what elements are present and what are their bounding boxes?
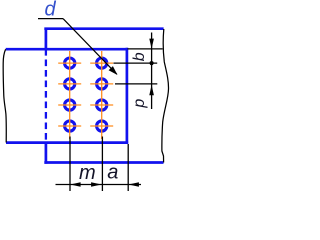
ext line plate A right edge below [127,144,129,191]
ext line plate A top edge (b upper) [128,48,163,50]
plate B left edge solid lower [45,143,48,164]
centerline col2 vertical [101,51,103,139]
leader underline for d [38,18,63,20]
plate B left edge hidden dashed [45,49,47,143]
dimension line b/p vertical [151,33,153,110]
ext line row2 [115,83,157,85]
centerline row2 col1 [58,83,81,85]
plate B right break line [162,29,169,163]
ext line row1 [114,62,158,64]
svg-text:d: d [45,0,57,21]
arrow left at col1 [70,182,80,187]
centerline row2 col2 [90,83,113,85]
ext line col1 below [69,137,71,192]
hole row3 col2 [97,100,107,110]
leader arrowhead [109,66,118,75]
plate A bottom edge [6,141,128,144]
dimension line m/a horizontal [56,184,142,186]
arrow left at plate edge ext [129,182,139,187]
centerline row3 col2 [90,104,113,106]
plate B top edge [44,27,163,30]
centerline row1 col1 [58,62,81,64]
plate A right edge [126,48,129,144]
arrow down to b upper ext [149,39,154,49]
hole row1 col2 [97,58,107,68]
svg-text:p: p [131,99,148,109]
junction dot at row1 ext [150,61,154,65]
hole row4 col2 [97,121,107,131]
hole row2 col2 [97,79,107,89]
centerline col1 vertical [69,51,71,139]
leader line for d [63,19,117,75]
arrow right at col2 [91,182,101,187]
plate A top edge [6,48,128,51]
svg-text:a: a [107,161,118,183]
plate A left break line [3,49,6,142]
svg-text:m: m [79,162,96,184]
ext line col2 below [101,137,103,192]
hole row2 col1 [65,79,75,89]
centerline row4 col2 [90,125,113,127]
plate B bottom edge [44,161,163,164]
hole row3 col1 [65,100,75,110]
centerline row1 col2 [90,62,113,64]
centerline row3 col1 [58,104,81,106]
centerline row4 col1 [58,125,81,127]
hole row1 col1 [65,58,75,68]
svg-text:b: b [131,52,148,61]
arrow up to row2 ext [149,85,154,95]
plate B left edge solid upper [45,28,48,50]
hole row4 col1 [65,121,75,131]
